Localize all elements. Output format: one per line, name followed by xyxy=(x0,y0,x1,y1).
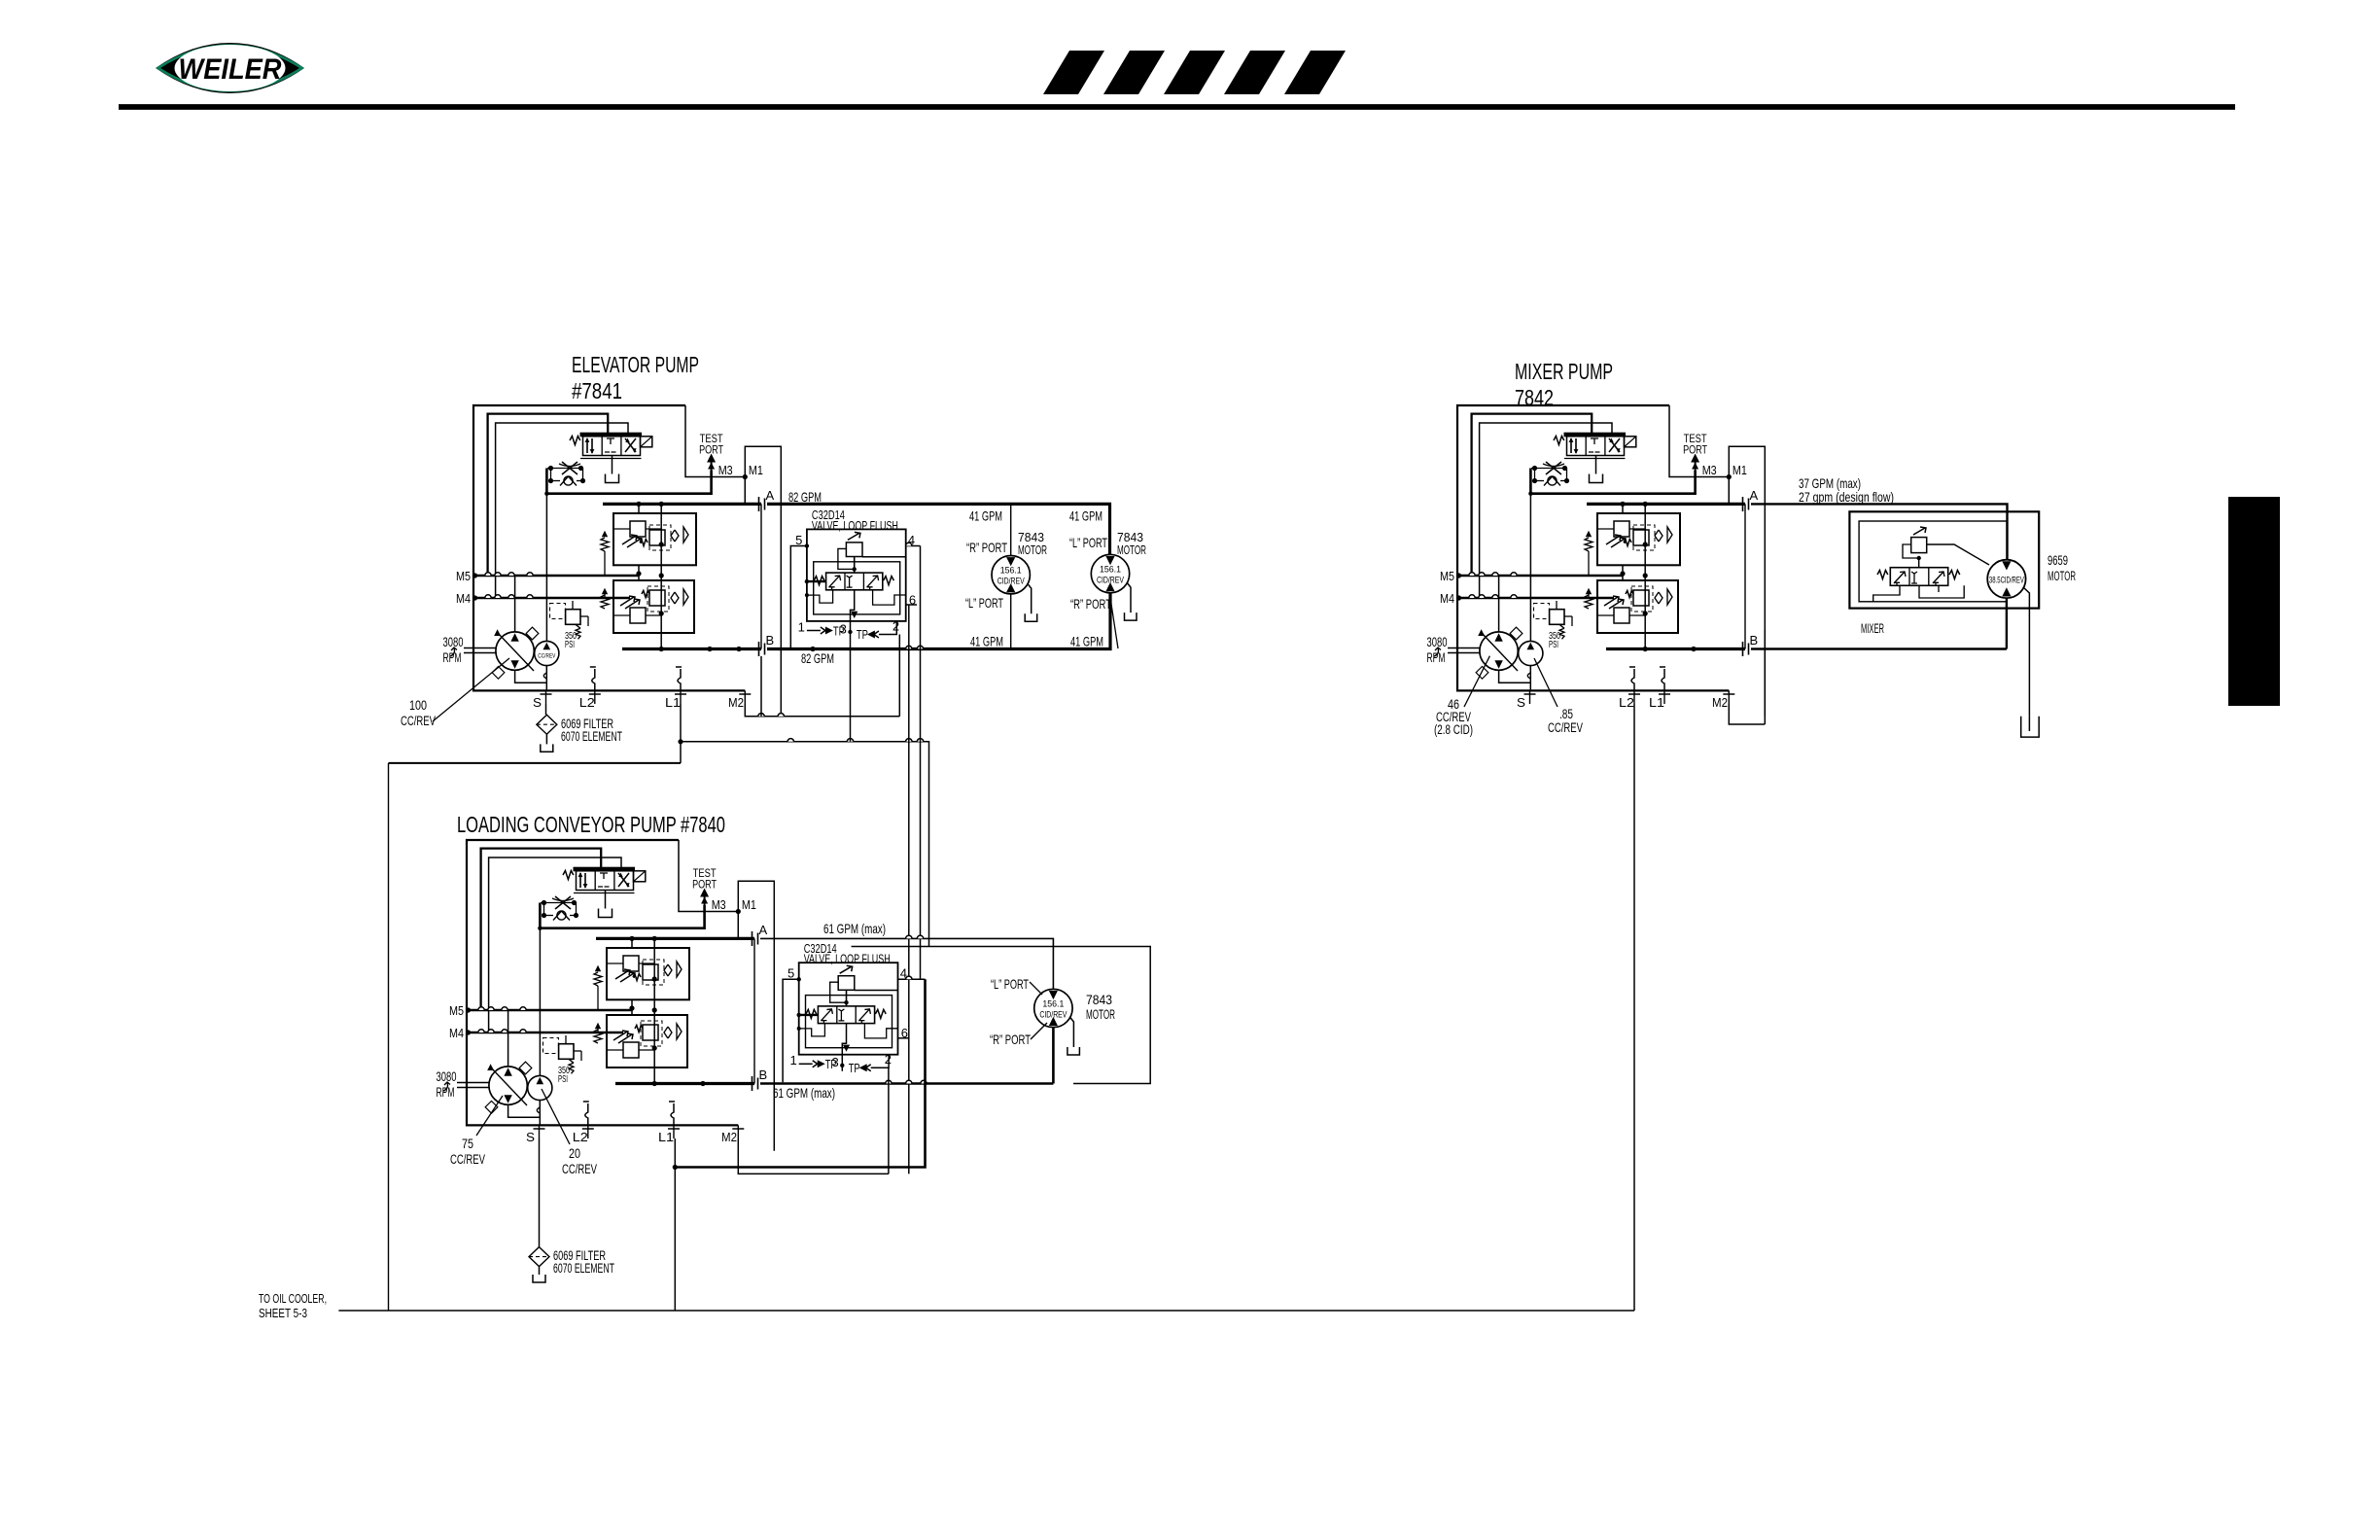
elevator left motor case drain xyxy=(1028,583,1032,613)
svg-text:PSI: PSI xyxy=(565,640,575,650)
elevator charge check 2 xyxy=(601,595,609,609)
svg-text:A: A xyxy=(1750,488,1759,503)
svg-text:S: S xyxy=(533,695,542,710)
svg-text:CID/REV: CID/REV xyxy=(1097,576,1124,586)
svg-text:1: 1 xyxy=(798,619,805,634)
svg-text:41 GPM: 41 GPM xyxy=(1069,508,1102,524)
svg-text:WEILER: WEILER xyxy=(179,53,282,86)
loading R-port leader xyxy=(1031,1023,1047,1039)
elevator filter xyxy=(537,715,557,734)
mixer box inner xyxy=(1859,521,2007,602)
wire to oil cooler xyxy=(338,1310,1634,1312)
header hash marks xyxy=(1043,51,1346,94)
loading control valve bar xyxy=(574,867,635,871)
loading wire L1 drain xyxy=(674,1138,676,1311)
elevator wire interface drain xyxy=(760,656,762,717)
svg-text:VALVE, LOOP FLUSH: VALVE, LOOP FLUSH xyxy=(804,952,891,966)
mixer wire pilot supply 1 xyxy=(1472,414,1592,576)
loading wire port5 xyxy=(783,979,799,1082)
elevator motor1 return xyxy=(1010,595,1012,649)
loading wire M3 pilot xyxy=(540,903,704,928)
svg-text:L2: L2 xyxy=(1619,695,1634,710)
svg-text:(2.8 CID): (2.8 CID) xyxy=(1434,722,1473,737)
mixer wire M5 xyxy=(1456,575,1623,577)
svg-text:2: 2 xyxy=(885,1052,892,1067)
svg-text:MOTOR: MOTOR xyxy=(1086,1007,1115,1022)
mixer orifice xyxy=(1546,462,1561,474)
mixer valve underline xyxy=(1564,458,1626,460)
svg-text:CC/REV: CC/REV xyxy=(538,653,555,660)
svg-text:PORT: PORT xyxy=(699,445,723,457)
loading L-port leader xyxy=(1030,982,1042,995)
loading flush valve box xyxy=(799,962,898,1054)
loading TP arrow 2 xyxy=(871,1055,889,1068)
svg-text:61 GPM (max): 61 GPM (max) xyxy=(773,1085,835,1101)
loading main pump xyxy=(489,1067,527,1104)
elevator wire module column xyxy=(660,504,662,648)
elevator 100cc leader xyxy=(433,658,509,721)
svg-text:LOADING CONVEYOR PUMP #7840: LOADING CONVEYOR PUMP #7840 xyxy=(457,812,725,837)
elevator flush wire pilot right xyxy=(873,590,906,605)
svg-text:CID/REV: CID/REV xyxy=(1039,1010,1067,1021)
loading wire B port xyxy=(615,1082,754,1085)
svg-text:.85: .85 xyxy=(1559,707,1573,721)
svg-text:“L” PORT: “L” PORT xyxy=(965,595,1003,611)
loading wire M5 xyxy=(466,1009,632,1012)
loading valve drain line xyxy=(605,891,607,909)
loading motor circle xyxy=(1034,989,1072,1027)
mixer control valve spring xyxy=(1554,437,1564,445)
loading motor case drain xyxy=(1069,1017,1073,1047)
svg-text:ELEVATOR PUMP: ELEVATOR PUMP xyxy=(572,352,699,377)
svg-text:TP: TP xyxy=(849,1062,860,1075)
svg-text:PORT: PORT xyxy=(1683,445,1707,457)
svg-text:B: B xyxy=(759,1067,768,1082)
elevator flush wire inlet xyxy=(807,580,826,582)
svg-text:3080: 3080 xyxy=(437,1069,457,1084)
svg-text:SHEET 5-3: SHEET 5-3 xyxy=(259,1307,307,1320)
mixer box outer xyxy=(1849,511,2039,608)
svg-text:L1: L1 xyxy=(665,695,681,710)
mixer relief module 2 box xyxy=(1597,580,1678,633)
svg-text:L2: L2 xyxy=(573,1130,588,1144)
loading solenoid xyxy=(634,871,646,882)
svg-text:CC/REV: CC/REV xyxy=(450,1152,485,1167)
loading motor frame xyxy=(852,947,1151,1084)
svg-text:82 GPM: 82 GPM xyxy=(788,489,822,505)
loading wire module column xyxy=(653,938,655,1083)
loading filter feed xyxy=(539,1138,541,1247)
loading relief module 2 box xyxy=(607,1015,687,1067)
elevator flush spring right xyxy=(884,577,894,585)
elevator wire flush port2 drain xyxy=(898,635,900,717)
elevator control valve body xyxy=(583,437,641,456)
loading 75cc leader xyxy=(476,1096,503,1136)
loading relief module 1 box xyxy=(607,948,689,999)
loading wire M2 drain xyxy=(738,1138,889,1173)
elevator pump shaft xyxy=(464,648,497,653)
wire corridor v2 xyxy=(920,546,922,980)
elevator flush wire port4 xyxy=(862,556,906,558)
loading relief module 2 relief valve xyxy=(623,1042,639,1058)
loading wire pump column xyxy=(507,1010,509,1067)
svg-text:PORT: PORT xyxy=(692,880,717,892)
svg-text:3080: 3080 xyxy=(443,635,464,649)
svg-text:5: 5 xyxy=(787,966,794,981)
elevator orifice xyxy=(562,462,577,474)
loading port L2 strain relief xyxy=(585,1103,588,1125)
svg-text:TP: TP xyxy=(825,1058,837,1071)
elevator flush spool valve xyxy=(826,573,883,590)
elevator valve drain tank xyxy=(606,474,619,483)
mixer port L2 strain relief xyxy=(1631,669,1634,690)
elevator flush spring left xyxy=(814,577,824,585)
svg-text:M5: M5 xyxy=(1440,569,1454,583)
mixer tank xyxy=(2021,717,2040,737)
mixer valve sub left xyxy=(1873,585,1900,602)
elevator valve underline xyxy=(580,458,642,460)
svg-text:“R” PORT: “R” PORT xyxy=(1070,596,1111,612)
mixer spool spring left xyxy=(1877,571,1888,579)
svg-text:1: 1 xyxy=(789,1053,796,1067)
loading charge check 2 xyxy=(594,1030,602,1043)
loading orifice xyxy=(555,896,571,909)
elevator wire pump column xyxy=(514,576,516,632)
svg-text:CID/REV: CID/REV xyxy=(997,577,1025,587)
mixer port break B xyxy=(1743,642,1749,656)
elevator relief module 1 box xyxy=(613,513,696,565)
elevator wire left drain bus xyxy=(389,762,682,764)
mixer wire S column xyxy=(1529,481,1531,642)
loading port L1 stub xyxy=(673,1125,675,1138)
elevator solenoid xyxy=(641,437,652,447)
elevator wire B trunk xyxy=(767,594,1110,649)
loading flush pilot frame xyxy=(806,996,892,1048)
mixer spool spring right xyxy=(1949,571,1960,579)
elevator flush wire port6 xyxy=(906,604,917,606)
svg-text:PSI: PSI xyxy=(1549,640,1558,650)
elevator pump housing box xyxy=(473,405,745,690)
elevator port S relief xyxy=(543,673,546,679)
mixer port L2 stub xyxy=(1633,690,1635,704)
elevator left motor circle xyxy=(992,556,1030,594)
elevator control valve spring xyxy=(570,437,580,445)
svg-text:M1: M1 xyxy=(749,463,763,477)
svg-text:156.1: 156.1 xyxy=(1100,565,1121,576)
loading wire B trunk xyxy=(760,1028,1053,1084)
loading flush spring right xyxy=(875,1009,886,1018)
loading flush wire pilot right xyxy=(864,1024,897,1038)
mixer relief valve xyxy=(1911,538,1927,553)
svg-text:7843: 7843 xyxy=(1117,531,1143,544)
mixer control valve bar xyxy=(1564,433,1626,437)
elevator test port arrow xyxy=(711,457,713,471)
svg-text:M4: M4 xyxy=(1440,591,1454,606)
loading wire pilot supply 2 xyxy=(489,857,621,1032)
loading port S stub xyxy=(539,1125,541,1138)
mixer 46cc leader xyxy=(1464,656,1489,707)
elevator wire module column 2 xyxy=(638,504,640,513)
mixer charge check 2 xyxy=(1585,595,1592,609)
svg-text:27 gpm (design flow): 27 gpm (design flow) xyxy=(1799,489,1894,505)
svg-text:L2: L2 xyxy=(579,695,595,710)
elevator valve drain line xyxy=(612,456,613,474)
svg-text:TEST: TEST xyxy=(700,434,723,445)
mixer wire L2 drain xyxy=(1633,704,1635,1311)
loading charge relief 350psi xyxy=(543,1038,559,1054)
elevator relief module 1 relief valve xyxy=(630,521,646,537)
elevator wire M4 xyxy=(472,597,630,600)
svg-text:M3: M3 xyxy=(712,897,726,912)
loading test port arrow xyxy=(704,892,706,905)
elevator wire left drain xyxy=(680,742,682,763)
elevator port break B xyxy=(759,642,765,656)
svg-text:TEST: TEST xyxy=(1684,434,1707,445)
mixer wire A port xyxy=(1587,503,1745,506)
elevator relief module 2 relief valve xyxy=(630,608,646,623)
svg-text:82 GPM: 82 GPM xyxy=(801,650,834,666)
mixer main pump xyxy=(1480,632,1518,670)
mixer valve sub right xyxy=(1919,585,1964,598)
loading wire port2 drain xyxy=(888,1067,890,1173)
svg-text:7843: 7843 xyxy=(1086,993,1112,1007)
loading valve underline xyxy=(574,892,635,894)
svg-text:MOTOR: MOTOR xyxy=(1018,543,1047,557)
elevator port M2 stub xyxy=(744,690,746,704)
elevator flush wire port4 ext xyxy=(906,545,921,547)
svg-text:38.5CID/REV: 38.5CID/REV xyxy=(1989,575,2024,584)
loading pump shaft xyxy=(457,1083,490,1088)
loading wire A port xyxy=(596,937,754,940)
loading port break A xyxy=(752,931,758,946)
mixer relief module 1 relief valve xyxy=(1614,521,1629,537)
svg-text:61 GPM (max): 61 GPM (max) xyxy=(823,921,886,936)
mixer wire M4 xyxy=(1456,597,1614,600)
elevator wire pilot supply 1 xyxy=(488,414,609,576)
elevator interface line xyxy=(760,504,762,648)
Weiler logo xyxy=(156,43,304,93)
elevator flush wire port3 xyxy=(851,590,855,638)
svg-text:RPM: RPM xyxy=(443,650,462,665)
svg-text:CC/REV: CC/REV xyxy=(401,714,436,728)
svg-text:“L” PORT: “L” PORT xyxy=(1069,535,1107,550)
svg-text:S: S xyxy=(526,1130,535,1144)
mixer control valve body xyxy=(1567,437,1625,456)
mixer charge check 1 xyxy=(1585,538,1592,551)
wire corridor v1 xyxy=(908,605,910,1173)
mixer port M2 stub xyxy=(1728,690,1730,704)
mixer port L1 stub xyxy=(1663,690,1665,704)
mixer pump housing box xyxy=(1457,405,1729,690)
mixer port break A xyxy=(1743,497,1749,511)
elevator wire pilot supply 2 xyxy=(496,423,628,598)
mixer wire pilot supply 2 xyxy=(1480,423,1612,598)
svg-text:L1: L1 xyxy=(1649,695,1664,710)
loading flush wire port4 ext xyxy=(898,978,926,980)
elevator port S stub xyxy=(545,690,547,704)
svg-text:PSI: PSI xyxy=(558,1074,568,1085)
svg-text:100: 100 xyxy=(409,698,427,713)
svg-text:B: B xyxy=(1750,633,1759,647)
mixer port S stub xyxy=(1529,690,1531,704)
elevator staple wire xyxy=(745,446,781,717)
elevator port L1 stub xyxy=(680,690,682,704)
mixer case drain xyxy=(2023,587,2029,717)
loading wire M4 xyxy=(466,1032,623,1034)
svg-text:TEST: TEST xyxy=(693,868,717,880)
elevator port L2 stub xyxy=(594,690,596,704)
svg-text:#7841: #7841 xyxy=(572,378,622,403)
svg-text:6070 ELEMENT: 6070 ELEMENT xyxy=(553,1261,614,1276)
elevator wire S column xyxy=(545,481,547,642)
elevator motor1 feed xyxy=(1010,504,1012,555)
loading staple wire xyxy=(738,881,774,1151)
elevator filter tank xyxy=(545,734,547,744)
loading port L1 strain relief xyxy=(671,1103,674,1125)
svg-text:TP: TP xyxy=(833,624,845,638)
svg-text:TO OIL COOLER,: TO OIL COOLER, xyxy=(259,1292,327,1306)
svg-text:M4: M4 xyxy=(456,591,471,606)
loading wire module column 2 xyxy=(631,938,633,948)
svg-text:MOTOR: MOTOR xyxy=(2047,569,2076,583)
loading flush wire port3 xyxy=(842,1024,846,1071)
loading flush wire port6 xyxy=(898,1037,909,1039)
loading control valve spring xyxy=(563,871,574,880)
elevator control valve bar xyxy=(580,433,642,437)
svg-text:MIXER PUMP: MIXER PUMP xyxy=(1515,359,1613,384)
loading wire pilot supply 1 xyxy=(481,849,602,1010)
mixer interface line xyxy=(1744,504,1746,648)
elevator wire M3 pilot xyxy=(546,469,711,494)
svg-text:A: A xyxy=(766,488,775,503)
svg-text:75: 75 xyxy=(462,1137,473,1151)
svg-text:M2: M2 xyxy=(721,1130,737,1144)
elevator charge check 1 xyxy=(601,538,609,551)
loading TP arrow 1 xyxy=(799,1063,813,1065)
loading valve drain tank xyxy=(599,909,612,918)
elevator R-port leader xyxy=(1111,601,1119,648)
svg-text:TP: TP xyxy=(857,628,868,642)
elevator wire M5 xyxy=(472,575,639,577)
mixer motor xyxy=(1987,560,2025,598)
svg-text:41 GPM: 41 GPM xyxy=(970,634,1003,649)
loading port S relief xyxy=(537,1107,540,1113)
mixer pump shaft xyxy=(1448,648,1481,653)
elevator wire L1 drain xyxy=(680,704,682,742)
svg-text:M4: M4 xyxy=(449,1026,464,1040)
svg-text:M5: M5 xyxy=(449,1003,464,1018)
loading filter tank xyxy=(539,1267,541,1275)
elevator port L2 strain relief xyxy=(592,669,595,690)
mixer relief module 1 box xyxy=(1597,513,1680,565)
elevator wire B port xyxy=(622,647,761,650)
loading wire S column xyxy=(539,916,541,1076)
svg-text:B: B xyxy=(766,633,775,647)
mixer check valve xyxy=(1548,476,1557,485)
svg-text:9659: 9659 xyxy=(2047,553,2068,568)
mixer wire B port xyxy=(1606,647,1745,650)
loading flush wire port4 xyxy=(855,990,898,992)
mixer wire M2 drain xyxy=(1729,704,1765,724)
elevator port L1 strain relief xyxy=(678,669,681,690)
svg-text:“R” PORT: “R” PORT xyxy=(966,540,1007,555)
mixer charge pump xyxy=(1519,641,1543,665)
elevator wire drain bus xyxy=(681,742,929,947)
mixer staple down xyxy=(1764,630,1766,724)
svg-text:41 GPM: 41 GPM xyxy=(969,508,1002,524)
mixer spool valve xyxy=(1890,568,1947,586)
loading port M2 stub xyxy=(737,1125,739,1138)
elevator wire port5 xyxy=(790,546,807,649)
elevator charge relief 350psi xyxy=(550,604,566,619)
loading relief module 1 relief valve xyxy=(623,956,639,971)
mixer wire M3 pilot xyxy=(1530,469,1695,494)
elevator TP arrow 2 xyxy=(879,621,896,635)
loading flush spool valve xyxy=(818,1006,874,1024)
loading flush wire pilot left xyxy=(799,1024,825,1036)
elevator charge pump xyxy=(535,641,559,665)
svg-text:L1: L1 xyxy=(658,1130,674,1144)
loading control valve body xyxy=(577,871,634,891)
svg-text:MIXER: MIXER xyxy=(1861,621,1884,636)
loading flush spring left xyxy=(806,1009,817,1018)
loading flush wire inlet xyxy=(799,1014,819,1016)
svg-text:M2: M2 xyxy=(728,695,744,710)
svg-text:M3: M3 xyxy=(718,463,733,477)
svg-text:M1: M1 xyxy=(1732,463,1747,477)
elevator wire A trunk xyxy=(767,504,1110,554)
side tab xyxy=(2228,497,2280,706)
loading pump housing box xyxy=(467,840,738,1125)
mixer wire module column xyxy=(1644,504,1646,648)
elevator relief module 2 box xyxy=(613,580,694,633)
loading charge check 1 xyxy=(594,972,602,986)
loading charge pump xyxy=(528,1075,552,1100)
mixer wire A trunk xyxy=(1751,504,2008,559)
elevator wire flush port3 drain xyxy=(850,638,852,742)
elevator TP arrow 1 xyxy=(807,630,821,632)
svg-text:RPM: RPM xyxy=(1427,650,1446,665)
mixer port S relief xyxy=(1527,673,1530,679)
mixer staple wire xyxy=(1729,446,1765,717)
loading 20cc leader xyxy=(542,1089,570,1144)
mixer solenoid xyxy=(1625,437,1636,447)
elevator port break A xyxy=(759,497,765,511)
svg-text:41 GPM: 41 GPM xyxy=(1070,634,1103,649)
mixer charge relief 350psi xyxy=(1534,604,1550,619)
svg-text:M2: M2 xyxy=(1712,695,1728,710)
loading check valve xyxy=(557,911,566,920)
svg-text:RPM: RPM xyxy=(437,1085,455,1100)
svg-text:VALVE, LOOP FLUSH: VALVE, LOOP FLUSH xyxy=(812,518,898,533)
mixer wire pump column xyxy=(1498,576,1500,632)
svg-text:156.1: 156.1 xyxy=(1042,999,1064,1010)
elevator right motor circle xyxy=(1091,554,1129,592)
header rule xyxy=(119,104,2235,110)
elevator main pump xyxy=(496,632,534,670)
svg-text:M3: M3 xyxy=(1702,463,1717,477)
elevator right motor case drain xyxy=(1127,582,1131,612)
svg-text:3080: 3080 xyxy=(1427,635,1448,649)
mixer valve drop xyxy=(1918,558,1920,568)
mixer wire M1 xyxy=(1728,477,1730,505)
loading filter xyxy=(529,1247,549,1267)
loading wire A trunk xyxy=(760,938,1053,989)
mixer 85cc leader xyxy=(1534,658,1557,707)
mixer wire B trunk xyxy=(1751,598,2007,649)
loading wire M1 xyxy=(737,912,739,939)
mixer valve drain line xyxy=(1595,456,1597,474)
